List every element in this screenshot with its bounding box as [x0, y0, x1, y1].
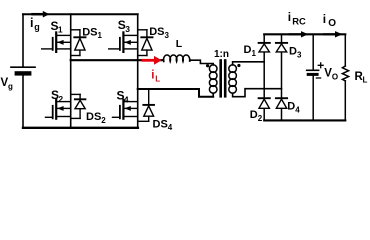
- svg-text:g: g: [34, 22, 40, 32]
- svg-text:i: i: [323, 12, 326, 26]
- label iRC: [288, 10, 306, 26]
- node B wire to primary: [138, 89, 214, 97]
- svg-text:O: O: [332, 72, 338, 81]
- svg-text:3: 3: [125, 24, 130, 34]
- plus minus marks: [316, 63, 323, 78]
- svg-text:2: 2: [58, 94, 63, 104]
- svg-text:D: D: [244, 44, 252, 56]
- svg-text:DS: DS: [82, 26, 97, 38]
- MOSFET S4: [113, 100, 138, 119]
- label iO: [323, 12, 337, 29]
- svg-text:L: L: [155, 75, 160, 84]
- svg-text:1:n: 1:n: [214, 49, 229, 60]
- body diode DS3: [138, 30, 153, 56]
- label DS1: [82, 26, 102, 40]
- svg-text:DS: DS: [153, 118, 168, 130]
- label DS3: [149, 26, 169, 40]
- svg-text:2: 2: [101, 116, 106, 125]
- label S3: [118, 18, 130, 34]
- svg-text:D: D: [250, 109, 258, 121]
- wire inductor to primary: [191, 60, 213, 65]
- battery Vg: [11, 14, 35, 128]
- svg-text:i: i: [288, 10, 291, 24]
- label S1: [51, 19, 63, 35]
- svg-text:1: 1: [252, 49, 257, 58]
- label S4: [117, 89, 129, 105]
- transformer core: [219, 61, 222, 97]
- wire secondary top to rectifier: [233, 62, 265, 65]
- current arrow iRC: [290, 31, 309, 37]
- svg-text:4: 4: [295, 105, 300, 114]
- svg-text:i: i: [30, 16, 33, 30]
- inductor L: [164, 55, 191, 62]
- capacitor VO branch: [307, 34, 319, 120]
- secondary polarity dot: [237, 64, 240, 67]
- svg-text:DS: DS: [149, 26, 164, 38]
- diode D4: [276, 98, 287, 108]
- wire rectifier right leg: [281, 34, 283, 120]
- label S2: [51, 88, 63, 104]
- label 1:n: [214, 49, 229, 60]
- wire output bottom rail: [264, 119, 345, 121]
- svg-text:L: L: [363, 76, 368, 85]
- label iL (red): [151, 69, 160, 83]
- transformer primary winding: [209, 65, 217, 93]
- svg-text:D: D: [287, 101, 295, 113]
- diode D1: [259, 43, 270, 52]
- MOSFET S2: [46, 100, 71, 119]
- label D2: [250, 109, 263, 123]
- body diode DS1: [71, 30, 86, 56]
- svg-text:3: 3: [165, 31, 170, 40]
- label RL: [355, 71, 368, 85]
- label D3: [289, 46, 302, 60]
- svg-text:g: g: [8, 82, 13, 91]
- label L: [176, 38, 183, 50]
- svg-text:D: D: [289, 46, 297, 58]
- diode D2: [259, 98, 270, 108]
- svg-text:RC: RC: [292, 15, 306, 26]
- svg-text:4: 4: [168, 123, 173, 132]
- current arrow iO: [324, 31, 343, 37]
- primary polarity dot: [206, 64, 209, 67]
- diode D3: [276, 43, 287, 52]
- current arrow iL (red): [143, 56, 162, 65]
- wire bottom rail: [23, 127, 138, 129]
- svg-text:1: 1: [98, 31, 103, 40]
- body diode DS4: [138, 89, 154, 121]
- svg-text:DS: DS: [86, 111, 101, 123]
- wire secondary bottom to rectifier: [233, 89, 282, 97]
- body diode DS2: [71, 94, 86, 118]
- wire right bridge leg: [137, 14, 139, 128]
- transformer secondary winding: [229, 65, 237, 93]
- wire top rail: [23, 13, 138, 15]
- label D1: [244, 44, 257, 58]
- svg-text:i: i: [151, 69, 154, 81]
- wire left bridge leg: [70, 14, 72, 128]
- svg-text:1: 1: [58, 25, 63, 35]
- svg-text:O: O: [328, 18, 336, 29]
- MOSFET S3: [109, 32, 138, 52]
- label DS4: [153, 118, 173, 132]
- svg-text:4: 4: [124, 94, 129, 104]
- label Vg: [1, 77, 14, 91]
- label ig: [30, 16, 40, 32]
- svg-text:3: 3: [297, 50, 302, 59]
- svg-text:2: 2: [258, 114, 263, 123]
- wire output top rail: [264, 33, 345, 35]
- node A wire to inductor: [71, 59, 164, 61]
- load resistor RL branch: [342, 34, 348, 120]
- svg-text:L: L: [176, 38, 183, 50]
- current arrow ig: [33, 11, 50, 18]
- label DS2: [86, 111, 106, 125]
- label D4: [287, 101, 300, 115]
- label VO: [324, 68, 338, 82]
- MOSFET S1: [42, 32, 71, 52]
- wire rectifier left leg: [263, 34, 265, 120]
- wire primary bottom stub: [212, 93, 214, 97]
